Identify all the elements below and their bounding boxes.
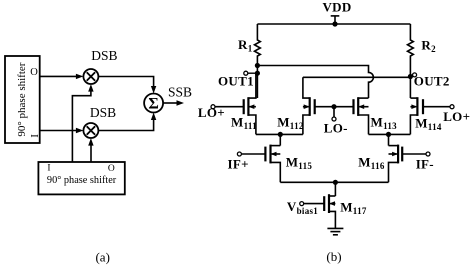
wire: tail node joining M115/M116 sources to M117 drain (280, 180, 388, 196)
mixer (bottom) (83, 123, 98, 138)
block: vertical 90-degree phase shifter (5, 56, 40, 143)
svg-text:IF+: IF+ (228, 156, 249, 171)
wire: OUT1 to M113 drain (with hop over OUT2 wire) (257, 66, 373, 99)
svg-text:DSB: DSB (90, 105, 116, 120)
node OUT1 (218, 63, 260, 98)
wire: sources of M111/M112 joined, node to M115 drain (256, 132, 303, 146)
mixer (top) (83, 69, 98, 84)
svg-text:LO+: LO+ (443, 109, 470, 124)
terminal LO+ (left) (198, 105, 244, 120)
node OUT2 (303, 73, 450, 89)
transistor M114 (mirrored) (410, 97, 441, 134)
node LO- (gates of M112/M113) (315, 104, 354, 135)
wire: summer output SSB arrow (163, 100, 184, 105)
ground (327, 228, 343, 234)
svg-text:O: O (30, 67, 38, 78)
wire: horizontal shifter to bottom mixer (88, 138, 93, 162)
transistor M115 (265, 145, 312, 183)
power symbol VDD (322, 0, 351, 27)
wire: bottom mixer output to summer (98, 113, 156, 131)
resistor R1 (238, 24, 260, 66)
svg-text:I: I (47, 164, 50, 174)
wire: OUT2 down to M114 drain (409, 77, 411, 99)
svg-text:OUT2: OUT2 (414, 73, 450, 88)
wire: sources of M113/M114 joined, node to M116 drain (369, 132, 411, 146)
wire: horizontal shifter to top mixer (L-bend) (72, 84, 93, 162)
terminal LO+ (right) (423, 105, 470, 124)
svg-text:SSB: SSB (168, 84, 192, 99)
resistor R2 (408, 24, 437, 76)
terminal Vbias1 (287, 199, 324, 216)
svg-text:(b): (b) (326, 249, 341, 264)
summer (sigma) (144, 94, 163, 113)
svg-text:OUT1: OUT1 (218, 73, 254, 88)
wire: top mixer output to summer (98, 77, 156, 94)
svg-text:Σ: Σ (148, 95, 158, 112)
svg-text:VDD: VDD (322, 0, 351, 14)
svg-text:IF-: IF- (416, 157, 434, 172)
svg-text:(a): (a) (95, 250, 109, 265)
svg-text:I: I (30, 134, 41, 138)
block: horizontal 90-degree phase shifter (38, 162, 124, 194)
wire: vertical shifter I output to bottom mixer (40, 128, 84, 133)
transistor M112 (mirrored) (277, 77, 315, 134)
wire: VDD rail (257, 23, 410, 25)
terminal IF- (402, 152, 434, 172)
svg-text:LO+: LO+ (198, 105, 225, 120)
svg-text:90° phase shifter: 90° phase shifter (16, 62, 28, 136)
terminal IF+ (228, 152, 266, 171)
transistor M111 (231, 73, 257, 134)
svg-text:DSB: DSB (91, 48, 117, 63)
transistor M116 (mirrored) (358, 145, 402, 183)
svg-text:90° phase shifter: 90° phase shifter (47, 175, 117, 186)
svg-text:LO-: LO- (324, 120, 348, 135)
svg-text:O: O (108, 164, 115, 174)
transistor M113 (354, 97, 398, 134)
wire: vertical shifter O output to top mixer (40, 74, 84, 79)
transistor M117 (324, 194, 367, 228)
